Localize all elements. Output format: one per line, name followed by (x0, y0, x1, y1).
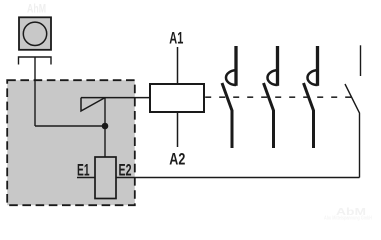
svg-text:AhM: AhM (27, 2, 46, 16)
svg-text:Abu Mittelspannung GmbH: Abu Mittelspannung GmbH (324, 216, 372, 222)
main contact 1: arc (226, 70, 236, 85)
main contact 1: terminal (234, 46, 237, 86)
mechanical linkage (dashed) (205, 96, 352, 98)
svg-text:A1: A1 (169, 29, 183, 48)
wire: E1 stub (77, 177, 95, 179)
svg-text:E2: E2 (119, 161, 132, 180)
contactor coil K1 (rectangle) (150, 84, 204, 112)
main contact 3: blade (304, 83, 314, 148)
wire: E2 to bottom rail (116, 177, 360, 179)
junction dot (102, 123, 109, 130)
main contact 3: terminal (316, 46, 319, 86)
svg-text:E1: E1 (77, 161, 90, 180)
wire: contact to coil A1 (81, 97, 150, 99)
main contact 3: arc (307, 70, 317, 85)
wire: junction up to contact (104, 98, 106, 126)
auxiliary contact: blade (345, 84, 360, 178)
enclosure (dashed gray box) (7, 80, 135, 205)
wire: pushbutton stem (34, 57, 36, 126)
svg-text:A2: A2 (169, 150, 185, 169)
main contact 2: terminal (276, 46, 279, 86)
solenoid E1/E2 (rectangle) (95, 157, 116, 199)
pushbutton head B1 (square) (19, 17, 51, 50)
switch contact flag (triangle) (81, 98, 105, 111)
wire: A1 terminal (177, 47, 179, 84)
actuator bracket (19, 57, 52, 65)
wire: A2 terminal (177, 112, 179, 147)
main contact 2: arc (267, 70, 277, 85)
main contact 1: blade (222, 83, 232, 148)
wire: junction down to solenoid (104, 126, 106, 157)
auxiliary contact: terminal (360, 45, 362, 76)
main contact 2: blade (264, 83, 274, 148)
pushbutton head B1 (circle) (23, 22, 46, 45)
wire: stem to junction (35, 125, 105, 127)
